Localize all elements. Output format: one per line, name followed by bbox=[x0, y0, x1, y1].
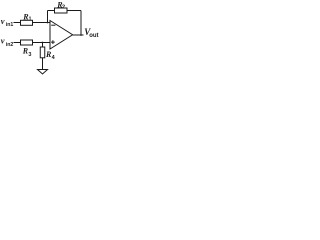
junction at inverting input bbox=[47, 22, 49, 24]
resistor R4 bbox=[40, 47, 45, 58]
svg-text:in2: in2 bbox=[6, 42, 14, 48]
wire feedback tap up bbox=[47, 11, 49, 23]
label R4 bbox=[45, 50, 56, 61]
wire vin1 lead bbox=[14, 22, 21, 24]
op-amp minus sign bbox=[51, 24, 55, 26]
wire top left bbox=[48, 10, 55, 12]
label R3 bbox=[22, 47, 32, 58]
svg-text:v: v bbox=[1, 36, 5, 46]
ground bbox=[38, 70, 48, 75]
wire feedback down to output node bbox=[80, 11, 82, 36]
op-amp plus sign bbox=[51, 40, 55, 44]
svg-text:v: v bbox=[1, 16, 5, 26]
svg-text:3: 3 bbox=[28, 52, 31, 58]
wire R3 to non-inverting input bbox=[33, 42, 51, 44]
svg-text:in1: in1 bbox=[6, 22, 14, 28]
wire tap down to R4 bbox=[42, 43, 44, 48]
label R1 bbox=[22, 12, 31, 22]
junction at non-inverting input bbox=[42, 42, 44, 44]
wire vin2 lead bbox=[14, 42, 21, 44]
node vin1 label bbox=[1, 16, 14, 28]
svg-text:1: 1 bbox=[29, 17, 32, 23]
op-amp U1 bbox=[50, 21, 73, 50]
node Vout label bbox=[84, 27, 98, 39]
resistor R1 bbox=[21, 20, 33, 25]
node vin2 label bbox=[1, 36, 14, 49]
label R2 bbox=[56, 1, 65, 11]
svg-text:out: out bbox=[89, 33, 98, 39]
resistor R3 bbox=[21, 40, 33, 45]
wire R4 to ground bbox=[42, 58, 44, 70]
wire R1 to inverting input bbox=[33, 22, 51, 24]
svg-text:2: 2 bbox=[62, 5, 65, 11]
junction at output node bbox=[80, 34, 82, 36]
resistor R2 bbox=[55, 8, 68, 13]
wire top right bbox=[67, 10, 81, 12]
wire output bbox=[73, 34, 84, 36]
